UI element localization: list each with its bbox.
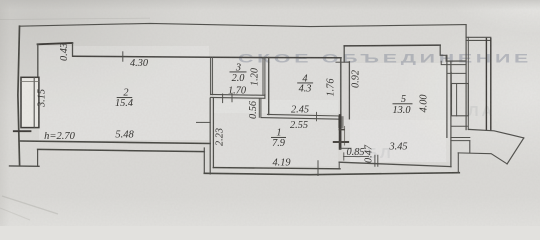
room 3 label <box>230 62 247 84</box>
tick 1.70 <box>231 93 233 102</box>
bottom-left streaks <box>2 196 58 214</box>
notch at top of wall <box>336 61 349 63</box>
room 1 left wall line b <box>212 98 214 167</box>
tick 4.30 <box>122 52 124 61</box>
room 3 bottom wall double <box>211 94 265 98</box>
sill double lines <box>451 138 470 141</box>
room 2 step 0.43 <box>72 43 74 56</box>
room 4 label <box>297 73 313 94</box>
room 1 bottom wall inner <box>213 168 340 169</box>
door jamb vertical <box>203 148 205 173</box>
rung 1 <box>441 61 466 64</box>
wall junction smudge <box>338 116 343 128</box>
door jamb tick <box>222 94 224 103</box>
tick 4.19 <box>317 161 319 176</box>
room 5 label <box>392 94 412 116</box>
rung 2 <box>447 65 466 74</box>
right window double line <box>486 38 490 130</box>
window top cap double <box>466 37 491 40</box>
outer boundary right wall <box>465 25 467 130</box>
bay right edge <box>507 138 524 164</box>
room 2 bottom wall upper line <box>21 141 211 144</box>
outer boundary top <box>20 23 467 26</box>
room 1 label <box>271 128 286 149</box>
bay top edge <box>468 129 523 138</box>
door jamb ticks <box>339 129 344 131</box>
room 2 bottom wall lower line <box>38 149 205 151</box>
room 1 left wall line a <box>209 98 211 174</box>
room 5 right wall double <box>446 55 448 137</box>
bay lower edge <box>458 153 507 164</box>
inner bottom line 3.45 zone <box>339 162 451 166</box>
room 2 left wall upper <box>37 44 39 77</box>
room 5 top-right step <box>440 45 466 61</box>
lower box line <box>451 125 467 127</box>
tick 2.45 <box>316 112 318 121</box>
room 4 left wall <box>268 58 270 115</box>
window inner cap <box>21 81 39 83</box>
wall 0.47 <box>375 155 378 166</box>
scan fold line <box>0 18 150 19</box>
room 3 right wall <box>263 58 265 95</box>
room 2 label <box>115 88 133 109</box>
window mid line <box>33 77 35 127</box>
room 5 top wall <box>344 44 440 47</box>
corridor right wall thick <box>339 116 342 149</box>
dimension line 0.85 <box>344 153 369 160</box>
tick 2.23 top <box>197 121 211 123</box>
room 1 bottom wall outer <box>204 173 459 175</box>
room 2 top wall thick <box>38 43 73 44</box>
room 3 left wall <box>211 57 213 94</box>
outer boundary left wall <box>18 26 20 165</box>
nook bottom line <box>340 147 351 149</box>
wall piece 0.56 <box>259 99 261 118</box>
room interior light wash <box>39 46 450 166</box>
wall between room 4 and room 5 <box>340 58 342 119</box>
long top wall rooms 2-3-4 <box>73 56 341 58</box>
bay left vertical <box>457 153 459 173</box>
mark below window <box>14 130 31 132</box>
room 5 corner connector <box>343 46 345 62</box>
duct box <box>452 84 469 116</box>
window left wall <box>21 77 39 127</box>
wall stub x=37.6 bottom-left <box>37 150 39 166</box>
corridor top wall double <box>268 114 341 116</box>
sill corner vertical <box>469 141 471 153</box>
outer boundary bottom-left ledge <box>10 165 40 167</box>
